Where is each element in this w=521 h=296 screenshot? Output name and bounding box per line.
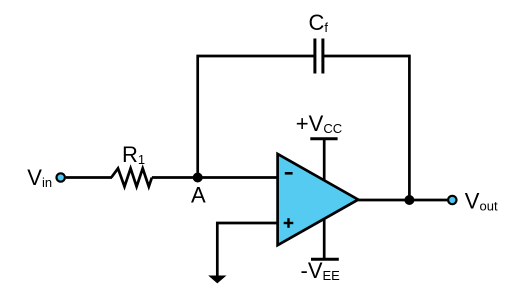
svg-text:Cf: Cf xyxy=(309,10,329,35)
terminal Vin xyxy=(57,173,65,181)
svg-text:+VCC: +VCC xyxy=(296,111,342,136)
power rail -VEE bar xyxy=(311,258,339,261)
op-amp U1 xyxy=(278,154,359,245)
svg-text:-VEE: -VEE xyxy=(301,258,341,283)
node A junction xyxy=(193,173,203,183)
ground xyxy=(208,276,226,284)
power rail +VCC bar xyxy=(310,137,337,140)
pin label: non-inverting input (+) xyxy=(284,218,294,228)
wire: op-amp output to Vout terminal xyxy=(358,199,447,202)
wire: VCC stub into op-amp xyxy=(323,139,326,186)
wire: node A up (feedback left vertical) xyxy=(196,55,199,179)
wire: Vin terminal to R1 xyxy=(66,176,112,179)
node: output junction xyxy=(404,195,414,205)
svg-text:A: A xyxy=(191,183,206,208)
wire: VEE stub from op-amp xyxy=(323,213,326,259)
wire: Cf right plate to output corner xyxy=(323,55,411,58)
svg-text:R1: R1 xyxy=(122,142,145,167)
pin label: inverting input (-) xyxy=(285,172,293,175)
svg-text:Vin: Vin xyxy=(27,165,52,190)
wire: feedback top, node A corner to Cf left plate xyxy=(197,55,315,58)
resistor R1 xyxy=(111,168,152,186)
terminal Vout xyxy=(448,196,456,204)
wire: ground corner to op-amp non-inverting input xyxy=(216,222,278,225)
wire: ground vertical drop xyxy=(216,222,219,277)
wire: feedback right vertical down to output node xyxy=(408,55,411,200)
svg-text:Vout: Vout xyxy=(465,189,498,214)
wire: R1 to op-amp inverting input xyxy=(152,176,279,179)
capacitor Cf xyxy=(315,39,323,74)
